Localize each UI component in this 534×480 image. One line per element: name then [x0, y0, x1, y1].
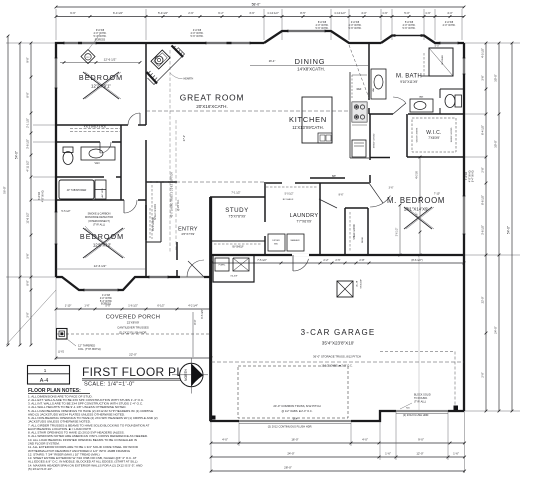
svg-text:5'-4" W.HD.: 5'-4" W.HD. — [472, 170, 475, 183]
svg-text:2'-5": 2'-5" — [335, 258, 340, 262]
svg-text:8'-0": 8'-0" — [193, 319, 197, 324]
svg-text:2'-6": 2'-6" — [188, 11, 193, 15]
svg-text:M. BEDROOM: M. BEDROOM — [387, 196, 445, 205]
svg-text:1'-6": 1'-6" — [453, 451, 459, 455]
svg-text:(5) 2X12 IS 8'-10".: (5) 2X12 IS 8'-10". — [28, 467, 53, 471]
svg-text:5'-0": 5'-0" — [404, 11, 409, 15]
svg-text:24'-0": 24'-0" — [494, 326, 498, 334]
svg-text:5'-0": 5'-0" — [435, 45, 440, 48]
svg-text:(1'-6"): (1'-6") — [58, 351, 65, 354]
svg-text:BV P & ROD: BV P & ROD — [153, 217, 155, 230]
svg-text:(2) 2X12 CONTINUOUS FLUSH HDR.: (2) 2X12 CONTINUOUS FLUSH HDR. — [268, 425, 313, 429]
svg-text:2'-1 1/2": 2'-1 1/2" — [25, 118, 29, 128]
svg-text:SHELF & ROD: SHELF & ROD — [374, 133, 376, 148]
svg-text:7'-5 1/2": 7'-5 1/2" — [257, 258, 267, 262]
svg-text:3'-0": 3'-0" — [25, 312, 29, 317]
svg-text:9'-0": 9'-0" — [25, 57, 29, 62]
svg-text:1'-6 1/2": 1'-6 1/2" — [128, 304, 138, 308]
svg-text:6'-2": 6'-2" — [218, 11, 223, 15]
svg-text:CANTILEVER TRUSSES: CANTILEVER TRUSSES — [117, 326, 149, 330]
svg-text:8'-6 1/2": 8'-6 1/2" — [480, 195, 484, 205]
svg-text:KITCHEN: KITCHEN — [289, 115, 327, 124]
svg-text:5'-6" W.HD.: 5'-6" W.HD. — [191, 35, 204, 38]
svg-text:STUDY: STUDY — [225, 207, 248, 214]
svg-text:28'-0": 28'-0" — [284, 466, 292, 470]
svg-text:LAUNDRY: LAUNDRY — [290, 213, 319, 219]
svg-text:ATTIC: ATTIC — [355, 281, 358, 288]
svg-text:36'-0" STORAGE TRUSS, 8/12 PIT: 36'-0" STORAGE TRUSS, 8/12 PITCH — [313, 354, 361, 358]
svg-text:(TYP. ALL): (TYP. ALL) — [93, 224, 105, 227]
svg-text:4'-0" W.HD.: 4'-0" W.HD. — [41, 190, 44, 203]
svg-text:4'-0 5/8: 4'-0 5/8 — [417, 170, 419, 178]
svg-text:VAN: VAN — [95, 162, 100, 165]
svg-text:ALT. W/D: ALT. W/D — [101, 188, 104, 197]
svg-text:9'-5 3/4": 9'-5 3/4" — [200, 309, 204, 319]
svg-text:@ 24" O.C.: @ 24" O.C. — [178, 199, 180, 211]
svg-text:24'-0" COMMON TRUSS, 8/12 PITC: 24'-0" COMMON TRUSS, 8/12 PITCH — [273, 404, 320, 408]
svg-text:4'-0": 4'-0" — [222, 437, 228, 441]
svg-text:4'-0": 4'-0" — [362, 437, 368, 441]
svg-text:@ 1/2" OHBS. ■ 2'-0" O.C.: @ 1/2" OHBS. ■ 2'-0" O.C. — [282, 409, 313, 413]
svg-text:3'-6 1/2": 3'-6 1/2" — [397, 228, 399, 237]
svg-text:COL. (TYP. BOTH): COL. (TYP. BOTH) — [78, 347, 101, 351]
svg-text:5'-6" W.HD.: 5'-6" W.HD. — [316, 27, 329, 30]
svg-text:4'-11 1/2": 4'-11 1/2" — [25, 160, 29, 171]
svg-text:27'-2": 27'-2" — [183, 135, 186, 141]
svg-text:8'-0": 8'-0" — [25, 280, 29, 285]
svg-text:7'-10": 7'-10" — [434, 193, 440, 196]
svg-text:3'-6": 3'-6" — [249, 11, 254, 15]
svg-text:3'-6 1/2": 3'-6 1/2" — [480, 225, 484, 235]
svg-text:12'-6 1/2": 12'-6 1/2" — [104, 58, 117, 62]
svg-text:30'-0": 30'-0" — [494, 140, 498, 148]
svg-text:VAN: VAN — [372, 87, 375, 92]
svg-text:58'-0": 58'-0" — [252, 2, 261, 6]
svg-text:WASHER: WASHER — [290, 239, 300, 242]
svg-text:6'-6": 6'-6" — [70, 11, 75, 15]
svg-text:6'-1/2": 6'-1/2" — [157, 304, 164, 308]
svg-text:4'-0": 4'-0" — [361, 11, 366, 15]
svg-text:13'1"X14'X9': 13'1"X14'X9' — [404, 207, 429, 212]
svg-text:HEARTH: HEARTH — [184, 78, 194, 81]
svg-text:22'-0": 22'-0" — [480, 297, 484, 304]
svg-text:9'-6": 9'-6" — [417, 213, 419, 218]
svg-text:24'-0": 24'-0" — [287, 451, 294, 455]
svg-text:(TYP. ALL): (TYP. ALL) — [414, 401, 426, 404]
svg-text:40" TUB/SHOWER: 40" TUB/SHOWER — [67, 190, 87, 192]
svg-text:KID: KID — [406, 408, 410, 410]
svg-text:(INTERCONNECT): (INTERCONNECT) — [88, 220, 110, 223]
svg-text:8'-5": 8'-5" — [300, 11, 305, 15]
svg-text:42'-0" LA BRG TRUSS, 5 1/2-8,5: 42'-0" LA BRG TRUSS, 5 1/2-8,5 1/2 PITCH — [171, 172, 174, 217]
svg-text:7'-1 1/2": 7'-1 1/2" — [231, 191, 240, 194]
svg-text:7'X6'X9': 7'X6'X9' — [428, 136, 440, 140]
svg-text:12" TAPERED: 12" TAPERED — [78, 344, 95, 348]
svg-text:7'7"X6'X9': 7'7"X6'X9' — [296, 219, 312, 223]
svg-text:54'-0": 54'-0" — [507, 226, 511, 234]
svg-text:26'-4": 26'-4" — [269, 59, 276, 63]
svg-text:EGRESS: EGRESS — [101, 303, 111, 306]
svg-text:7'5"X7'8"X9': 7'5"X7'8"X9' — [228, 215, 246, 219]
svg-text:REF: REF — [357, 88, 362, 91]
svg-text:(2) 2X12 FLUSH HDR.: (2) 2X12 FLUSH HDR. — [119, 330, 148, 334]
svg-text:4'-0" W.HD.: 4'-0" W.HD. — [443, 24, 456, 27]
svg-text:BV SHELF: BV SHELF — [232, 247, 244, 249]
svg-text:12'-6 1/2": 12'-6 1/2" — [94, 264, 107, 268]
svg-text:11'-6 1/2": 11'-6 1/2" — [25, 212, 29, 223]
svg-text:5'-6" W.HD.: 5'-6" W.HD. — [349, 27, 362, 30]
svg-text:14'X8'XCATH.: 14'X8'XCATH. — [297, 67, 325, 72]
svg-text:8'-6": 8'-6" — [339, 194, 344, 197]
svg-text:9'-0": 9'-0" — [418, 437, 424, 441]
svg-text:22'X8'X9': 22'X8'X9' — [127, 321, 140, 325]
svg-text:1'-6": 1'-6" — [385, 451, 391, 455]
svg-text:SHELF & ROD: SHELF & ROD — [354, 224, 356, 240]
svg-text:1'-10": 1'-10" — [65, 304, 72, 308]
svg-text:8'-0": 8'-0" — [25, 92, 29, 97]
svg-text:SMOKE & CARBON: SMOKE & CARBON — [88, 213, 111, 216]
svg-text:DINING: DINING — [295, 57, 326, 66]
svg-text:SCALE: 1/4"=1'-0": SCALE: 1/4"=1'-0" — [84, 381, 135, 387]
svg-text:12'-0": 12'-0" — [416, 451, 423, 455]
svg-text:COVERED PORCH: COVERED PORCH — [106, 315, 161, 321]
svg-text:DESK: DESK — [362, 236, 364, 242]
svg-text:ACCESS: ACCESS — [359, 280, 362, 290]
svg-text:4'-0": 4'-0" — [447, 11, 452, 15]
svg-text:4'-2 1/4": 4'-2 1/4" — [188, 304, 198, 308]
svg-text:WATER HEATER: WATER HEATER — [233, 254, 249, 257]
svg-text:20'X16'XCATH.: 20'X16'XCATH. — [196, 104, 228, 109]
svg-text:5'-6" W.HD.: 5'-6" W.HD. — [403, 27, 416, 30]
svg-text:6'-0 1/2": 6'-0 1/2" — [113, 11, 123, 15]
svg-text:2'-8": 2'-8" — [480, 167, 484, 172]
svg-text:4'X1'5 SHELF & ROD: 4'X1'5 SHELF & ROD — [84, 127, 107, 129]
svg-text:4'6"X7'X9': 4'6"X7'X9' — [181, 232, 195, 236]
svg-text:11'X13'X9'CATH.: 11'X13'X9'CATH. — [292, 125, 324, 130]
svg-text:9'10"X11'X9': 9'10"X11'X9' — [400, 80, 418, 84]
svg-text:SHOWER: SHOWER — [442, 55, 444, 65]
svg-text:W/D: W/D — [274, 244, 279, 246]
svg-text:BEDROOM: BEDROOM — [80, 232, 124, 241]
svg-text:3-CAR GARAGE: 3-CAR GARAGE — [301, 328, 376, 337]
svg-text:22'-0": 22'-0" — [129, 353, 137, 357]
svg-text:(8'-6 1/2"): (8'-6 1/2") — [411, 258, 422, 262]
svg-text:2'-8": 2'-8" — [359, 258, 364, 262]
svg-text:3'-6 1/2": 3'-6 1/2" — [25, 139, 29, 149]
svg-text:16'#: 16'# — [293, 417, 298, 420]
svg-text:3'0-5/8": 3'0-5/8" — [230, 276, 238, 278]
svg-text:(2) 2X12 FLUSH HDR.: (2) 2X12 FLUSH HDR. — [403, 413, 430, 417]
svg-text:1'-6": 1'-6" — [84, 304, 89, 308]
svg-text:SHELF & ROD: SHELF & ROD — [415, 128, 417, 143]
svg-text:1'-10 1/2": 1'-10 1/2" — [267, 11, 279, 15]
svg-text:NORTH: NORTH — [184, 368, 188, 381]
svg-text:30'-0": 30'-0" — [494, 74, 498, 82]
svg-text:5'-5 1/2": 5'-5 1/2" — [61, 210, 70, 213]
svg-text:5'-6": 5'-6" — [25, 253, 29, 258]
svg-text:BV SHELF: BV SHELF — [283, 199, 294, 201]
svg-text:16'-0": 16'-0" — [291, 437, 298, 441]
svg-text:5'-9 1/2": 5'-9 1/2" — [158, 11, 168, 15]
svg-text:6'-4 1/2": 6'-4 1/2" — [480, 125, 484, 135]
svg-text:A-4: A-4 — [40, 378, 48, 384]
svg-text:56'-0": 56'-0" — [3, 186, 7, 193]
svg-text:FURN.: FURN. — [219, 265, 226, 267]
svg-text:GREAT ROOM: GREAT ROOM — [180, 93, 244, 103]
svg-text:3'-6": 3'-6" — [389, 187, 394, 190]
svg-text:1'-10 1/2": 1'-10 1/2" — [334, 11, 346, 15]
svg-text:1: 1 — [44, 368, 47, 373]
svg-text:54'-0": 54'-0" — [15, 151, 19, 159]
svg-text:DRYER: DRYER — [272, 240, 280, 242]
svg-text:2'-0": 2'-0" — [480, 372, 484, 377]
svg-text:2'-2": 2'-2" — [323, 258, 328, 262]
svg-text:MONOXIDE DETECTOR: MONOXIDE DETECTOR — [85, 216, 113, 219]
svg-text:1'-6": 1'-6" — [382, 11, 387, 15]
svg-text:SHELF & ROD: SHELF & ROD — [451, 127, 453, 142]
svg-text:35'4"X23'8"X10': 35'4"X23'8"X10' — [322, 341, 355, 346]
svg-text:VAN: VAN — [419, 96, 424, 99]
svg-text:4'-5 1/2": 4'-5 1/2" — [480, 48, 484, 58]
svg-text:5'-0 1/2": 5'-0 1/2" — [285, 193, 294, 196]
svg-text:3'-6": 3'-6" — [480, 75, 484, 80]
svg-text:B/P: B/P — [332, 176, 336, 178]
svg-text:1'-6": 1'-6" — [425, 11, 430, 15]
svg-text:M. BATH: M. BATH — [396, 74, 422, 80]
